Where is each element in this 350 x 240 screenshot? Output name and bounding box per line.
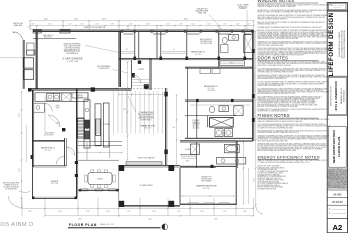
svg-text:12'-6": 12'-6"	[74, 19, 79, 21]
svg-text:03.18.25: 03.18.25	[332, 200, 343, 204]
svg-text:PARADISE VALLEY: PARADISE VALLEY	[340, 87, 343, 104]
svg-text:8'-4": 8'-4"	[244, 211, 247, 213]
svg-text:5'-4": 5'-4"	[192, 24, 195, 26]
svg-text:DESIGNER WINDOW SIZE: DESIGNER WINDOW SIZE	[258, 188, 277, 190]
svg-text:NEW CONSTRUCTION: NEW CONSTRUCTION	[332, 130, 336, 164]
svg-text:LIFEFORM DESIGN: LIFEFORM DESIGN	[328, 12, 335, 76]
svg-text:4721 E. OSBORN RD: 4721 E. OSBORN RD	[334, 80, 338, 110]
svg-text:12'-0" CLG.: 12'-0" CLG.	[144, 128, 152, 130]
svg-text:KITCHEN: KITCHEN	[103, 124, 111, 126]
svg-text:GREAT ROOM: GREAT ROOM	[140, 124, 155, 127]
svg-text:WINDOW NOTES: WINDOW NOTES	[258, 0, 295, 3]
svg-text:3 CAR GARAGE: 3 CAR GARAGE	[62, 57, 83, 60]
svg-text:5'-0": 5'-0"	[130, 24, 133, 26]
svg-text:FLOOR PLAN: FLOOR PLAN	[69, 223, 97, 227]
svg-text:15'-6": 15'-6"	[19, 168, 21, 172]
svg-text:24'-0": 24'-0"	[44, 19, 49, 21]
svg-text:BEDROOM #3: BEDROOM #3	[191, 52, 205, 54]
svg-text:ENERGY EFFICIENCY NOTES: ENERGY EFFICIENCY NOTES	[258, 154, 320, 159]
svg-text:BE REPORTED TO D: BE REPORTED TO D	[64, 51, 80, 53]
svg-text:12'-4": 12'-4"	[253, 73, 255, 77]
svg-text:COPYRIGHT LIFEFORM: COPYRIGHT LIFEFORM	[331, 5, 344, 7]
svg-text:NEW CONSTRUCTION FOR:: NEW CONSTRUCTION FOR:	[331, 85, 333, 106]
svg-text:W.I.C.: W.I.C.	[186, 161, 191, 163]
svg-text:FINISH NOTES: FINISH NOTES	[258, 113, 290, 118]
svg-text:6'-2": 6'-2"	[69, 24, 72, 26]
svg-text:OFFICE: OFFICE	[51, 181, 59, 183]
svg-text:EGRESS: EGRESS	[77, 95, 83, 97]
svg-text:5'-8": 5'-8"	[180, 24, 183, 26]
svg-text:8'-4": 8'-4"	[87, 211, 90, 213]
svg-text:8'-4": 8'-4"	[107, 211, 110, 213]
svg-text:6'-4": 6'-4"	[167, 24, 170, 26]
svg-text:8'-4": 8'-4"	[201, 211, 204, 213]
svg-text:CONDITIONS P: CONDITIONS P	[99, 68, 110, 70]
svg-text:BE REPORTED TO DESIGNER WINDOW: BE REPORTED TO DESIGNER WINDOW	[258, 176, 287, 178]
svg-text:9'-0" CLG.: 9'-0" CLG.	[45, 150, 52, 152]
svg-text:9'-0" CLG.: 9'-0" CLG.	[208, 88, 215, 90]
svg-text:9'-0": 9'-0"	[49, 24, 52, 26]
svg-text:BE TEM: BE TEM	[78, 97, 83, 99]
svg-text:DINING: DINING	[97, 179, 103, 181]
svg-text:DIMENSIO: DIMENSIO	[193, 122, 201, 124]
svg-text:8'-4": 8'-4"	[224, 211, 227, 213]
svg-text:22'-8": 22'-8"	[214, 219, 218, 221]
svg-text:7'-2": 7'-2"	[224, 24, 227, 26]
svg-text:FOYER: FOYER	[138, 69, 144, 71]
svg-text:BE REPORTED: BE REPORTED	[141, 120, 153, 122]
svg-text:IRC EGRESS WIN: IRC EGRESS WIN	[5, 188, 16, 190]
svg-text:8'-4": 8'-4"	[178, 211, 181, 213]
svg-text:8'-4": 8'-4"	[29, 211, 32, 213]
svg-text:BEDROOM #2: BEDROOM #2	[204, 86, 218, 88]
svg-text:BEDROOM #4: BEDROOM #4	[41, 148, 55, 150]
svg-text:MASTER BEDROOM: MASTER BEDROOM	[197, 185, 217, 188]
svg-text:LINE OF ROOF ABOVE: LINE OF ROOF ABOVE	[84, 26, 106, 29]
svg-text:COVERED PATIO: COVERED PATIO	[139, 184, 153, 187]
svg-text:14'-2": 14'-2"	[123, 109, 127, 111]
svg-text:6'-8": 6'-8"	[111, 24, 114, 26]
svg-text:SPECS FOR ROUG: SPECS FOR ROUG	[139, 116, 153, 118]
svg-text:TEL 602.555.0193 LIFEFORMDESI: TEL 602.555.0193 LIFEFORMDESIGN.COM	[344, 30, 346, 59]
svg-text:A2: A2	[333, 223, 343, 232]
svg-text:WITHIN OF: WITHIN OF	[46, 135, 53, 137]
svg-text:SITE CONDITIONS PRI: SITE CONDITIONS PRI	[63, 46, 81, 48]
svg-text:8'-10": 8'-10"	[146, 24, 150, 26]
svg-text:FLOOR PLAN: FLOOR PLAN	[337, 136, 341, 157]
svg-text:OPENING OF S: OPENING OF S	[201, 177, 211, 179]
svg-text:5'-6": 5'-6"	[81, 24, 84, 26]
svg-text:3'-4": 3'-4"	[32, 24, 35, 26]
svg-text:21'-0": 21'-0"	[253, 178, 255, 182]
svg-text:8'-0": 8'-0"	[208, 24, 211, 26]
svg-text:4'-2": 4'-2"	[248, 24, 251, 26]
svg-text:10'-0" CLG.: 10'-0" CLG.	[203, 188, 211, 190]
svg-text:9'-0" CLG.: 9'-0" CLG.	[195, 54, 202, 56]
svg-text:W.I.C.: W.I.C.	[230, 63, 235, 65]
svg-text:64'-4": 64'-4"	[184, 19, 189, 21]
svg-text:DESIGN 2025: DESIGN 2025	[334, 7, 342, 9]
svg-text:22'-8": 22'-8"	[78, 219, 82, 221]
svg-text:PER IRC EGR: PER IRC EGR	[13, 23, 24, 25]
svg-text:WITHIN OF D: WITHIN OF D	[238, 6, 248, 8]
svg-text:2005 AIBM D: 2005 AIBM D	[0, 222, 34, 228]
svg-text:16'-8": 16'-8"	[253, 123, 255, 127]
svg-text:B: B	[329, 212, 330, 214]
svg-text:7'-4": 7'-4"	[96, 24, 99, 26]
svg-text:OPENINGS PER CODE THE CONT: OPENINGS PER CODE THE CONT	[258, 178, 282, 180]
svg-text:11'-2": 11'-2"	[19, 113, 21, 117]
svg-text:OF DOORS TUBS: OF DOORS TUBS	[200, 43, 212, 45]
svg-text:8'-4": 8'-4"	[59, 211, 62, 213]
svg-text:14'-8": 14'-8"	[102, 19, 107, 21]
svg-text:DIMENSIO: DIMENSIO	[239, 8, 247, 10]
svg-text:22'-8": 22'-8"	[148, 219, 152, 221]
svg-text:6'-6": 6'-6"	[237, 24, 240, 26]
svg-text:DOOR NOTES: DOOR NOTES	[258, 56, 289, 61]
svg-text:OPENING OF SQ FT P: OPENING OF SQ FT P	[4, 185, 18, 187]
svg-text:8'-4": 8'-4"	[128, 211, 131, 213]
svg-text:24-093: 24-093	[333, 192, 342, 196]
svg-text:IRC EGRESS: IRC EGRESS	[46, 133, 55, 135]
svg-text:8'-4": 8'-4"	[153, 211, 156, 213]
svg-text:10'-0" CLG.: 10'-0" CLG.	[51, 183, 59, 185]
